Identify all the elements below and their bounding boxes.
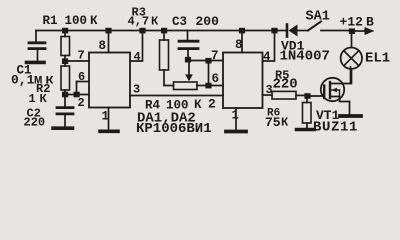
node rail-R3 junction xyxy=(161,28,167,34)
svg-text:SA1: SA1 xyxy=(306,10,330,25)
svg-text:1: 1 xyxy=(102,110,110,124)
wire pin8 DA2 xyxy=(241,33,243,53)
svg-text:1N4007: 1N4007 xyxy=(280,49,330,65)
diode VD1 xyxy=(287,25,308,37)
wire pin7 DA1 xyxy=(65,60,89,62)
wire rail to diode xyxy=(275,30,286,32)
ground (C1) xyxy=(27,61,45,65)
node C3-pin7 DA2 junction xyxy=(185,57,191,63)
wire drain from lamp xyxy=(350,67,352,84)
svg-text:3: 3 xyxy=(133,83,140,97)
node rail-pin4 DA1 junction xyxy=(139,28,145,34)
resistor R5 xyxy=(263,91,308,99)
ground (R6) xyxy=(297,128,315,132)
resistor R1 xyxy=(61,33,70,60)
wire +12V arrow xyxy=(352,27,375,35)
wire pin4 DA1 xyxy=(130,33,143,61)
ground (VT1 source) xyxy=(340,114,361,118)
svg-text:R1: R1 xyxy=(43,14,58,28)
svg-text:2: 2 xyxy=(78,96,85,110)
svg-text:6: 6 xyxy=(212,72,220,86)
svg-text:75: 75 xyxy=(265,115,281,130)
wire pin1 DA1 xyxy=(108,108,110,130)
capacitor C3 xyxy=(179,31,198,57)
svg-text:220: 220 xyxy=(273,77,298,93)
svg-text:К: К xyxy=(151,15,159,29)
svg-text:3: 3 xyxy=(266,83,273,97)
svg-text:8: 8 xyxy=(235,38,243,52)
resistor R6 xyxy=(303,98,312,127)
wiper arrow R4 xyxy=(185,63,193,82)
switch SA1 xyxy=(308,22,352,31)
wire pin7-pin6 link DA2 xyxy=(208,61,210,86)
svg-text:К: К xyxy=(40,92,48,106)
node R5-R6-gate junction xyxy=(304,93,310,99)
node rail-R1 junction xyxy=(62,28,68,34)
node switch-lamp junction xyxy=(349,28,355,34)
op-amp U1: IC DA1 box xyxy=(89,53,130,108)
svg-text:4: 4 xyxy=(134,50,141,64)
node R1-R2-pin7 junction xyxy=(62,58,68,64)
svg-text:EL1: EL1 xyxy=(365,51,390,67)
wire pin1 DA2 xyxy=(235,108,237,130)
svg-text:К: К xyxy=(281,116,289,130)
svg-text:0,1: 0,1 xyxy=(11,73,35,88)
capacitor C1 xyxy=(29,31,45,61)
ground (DA1 pin1) xyxy=(100,130,118,134)
svg-text:6: 6 xyxy=(78,70,85,84)
svg-text:КР1006ВИ1: КР1006ВИ1 xyxy=(136,121,212,137)
op-amp U2: IC DA2 box xyxy=(223,53,263,109)
potentiometer R4 xyxy=(174,82,224,90)
node rail-pin8 DA2 junction xyxy=(239,28,245,34)
wire gate lead xyxy=(308,95,325,97)
svg-text:7: 7 xyxy=(78,49,85,63)
wire pin7 DA2 xyxy=(188,60,223,62)
node pin6 link bottom junction xyxy=(205,83,211,89)
svg-text:В: В xyxy=(366,15,374,30)
svg-text:220: 220 xyxy=(24,116,46,130)
svg-text:BUZ11: BUZ11 xyxy=(313,120,358,136)
svg-text:К: К xyxy=(90,14,98,28)
svg-text:100: 100 xyxy=(65,14,88,28)
node pin2-pin6 link junction xyxy=(74,92,80,98)
wire pin6-pin2 link xyxy=(76,82,78,95)
wire pin6 DA1 xyxy=(77,81,90,83)
wire pin4 DA2 xyxy=(263,33,275,61)
wire pin8 DA1 xyxy=(108,33,110,53)
svg-text:4,7: 4,7 xyxy=(128,15,150,29)
svg-text:4: 4 xyxy=(263,50,271,64)
wire pin2 DA1 xyxy=(65,94,89,96)
node rail-pin4-VD1 junction xyxy=(271,28,277,34)
svg-text:8: 8 xyxy=(99,39,107,53)
resistor R2 xyxy=(61,63,70,93)
svg-text:С3: С3 xyxy=(172,15,187,29)
node rail-pin8 DA1 junction xyxy=(105,28,111,34)
wire source to ground xyxy=(349,102,351,115)
node R2-C2-pin2 junction xyxy=(62,92,68,98)
svg-text:7: 7 xyxy=(211,49,219,63)
svg-text:1: 1 xyxy=(29,92,36,106)
lamp EL1 xyxy=(341,34,362,84)
ground (C2) xyxy=(53,126,73,130)
svg-text:2: 2 xyxy=(208,97,216,112)
svg-text:1: 1 xyxy=(232,109,240,123)
capacitor C2 xyxy=(57,97,73,127)
svg-text:+12: +12 xyxy=(340,15,364,30)
node pin7-pin6 link top junction xyxy=(205,58,211,64)
resistor R3 xyxy=(160,33,174,86)
ground (DA2 pin1) xyxy=(226,130,246,134)
transistor Q1: MOSFET VT1 xyxy=(321,78,351,102)
wire pin3 DA1 to pin2 DA2 xyxy=(130,95,223,97)
svg-text:200: 200 xyxy=(196,14,220,29)
wire top supply rail xyxy=(36,30,275,32)
